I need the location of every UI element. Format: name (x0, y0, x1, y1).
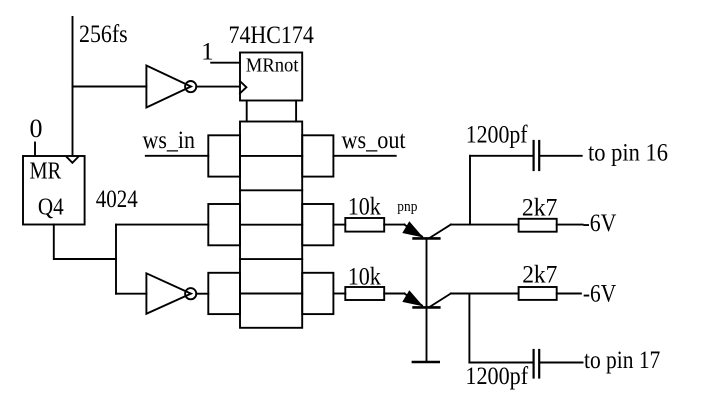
cell divider 2 (240, 189, 302, 191)
transistor Q2 pnp (402, 290, 451, 307)
wire node B down (468, 294, 470, 363)
wire to inverter 2 (116, 293, 146, 295)
resistor R4 2k7 lower (519, 287, 557, 300)
cell divider 4 (240, 258, 302, 260)
resistor R2 10k (345, 287, 384, 300)
svg-text:-6V: -6V (583, 210, 617, 237)
wire 256fs vertical (72, 17, 74, 156)
svg-text:10k: 10k (348, 194, 382, 221)
svg-text:74HC174: 74HC174 (229, 22, 315, 49)
svg-text:MR: MR (30, 159, 62, 185)
wire pin 1 to MRnot (211, 62, 240, 64)
svg-text:1: 1 (201, 39, 214, 66)
wire node to C1 (470, 155, 532, 157)
resistor R1 10k (345, 218, 384, 232)
wire node B to C2 (469, 362, 532, 364)
wire Q1 collector to node A (451, 224, 519, 226)
wire C2 to pin 17 (540, 362, 582, 364)
svg-text:pnp: pnp (397, 199, 417, 215)
cell divider 3 (240, 224, 302, 226)
capacitor C2 1200pf (534, 350, 540, 378)
inverter U2A (146, 66, 196, 108)
left tab row 3 (208, 273, 240, 314)
clock wedge 4024 (67, 157, 79, 163)
wire R4 to -6V (557, 293, 581, 295)
svg-text:1200pf: 1200pf (466, 122, 528, 149)
svg-text:0: 0 (30, 114, 43, 143)
ground (413, 361, 439, 364)
left tab row 2 (208, 204, 240, 245)
svg-text:ws_out: ws_out (342, 127, 406, 154)
inverter U2B (146, 273, 196, 314)
wire ws_out (333, 155, 395, 157)
wire to left tab row 2 (116, 224, 208, 226)
svg-text:Q4: Q4 (38, 195, 64, 221)
chip stack body 74HC174 (240, 122, 302, 328)
svg-text:10k: 10k (348, 264, 382, 291)
svg-text:to pin 17: to pin 17 (584, 347, 660, 374)
chip neck (247, 101, 296, 122)
svg-text:MRnot: MRnot (246, 55, 299, 77)
MRnot box U1 (240, 53, 302, 101)
wire right tab row 3 to R2 (333, 293, 345, 295)
wire right tab row 2 to R1 (333, 224, 345, 226)
capacitor C1 1200pf (534, 141, 540, 170)
svg-text:to pin 16: to pin 16 (588, 140, 668, 167)
right tab row 2 (302, 204, 333, 245)
svg-text:1200pf: 1200pf (465, 363, 528, 390)
svg-text:4024: 4024 (96, 186, 138, 213)
wire Q2 collector to node B (451, 293, 519, 295)
svg-text:2k7: 2k7 (522, 195, 558, 222)
resistor R3 2k7 upper (519, 219, 557, 232)
wire R1 to Q1 base (384, 224, 404, 226)
right tab row 1 (302, 135, 333, 176)
transistor Q1 pnp (402, 221, 451, 238)
cell divider 1 (240, 155, 302, 157)
wire Q2 base to ground (426, 307, 428, 362)
wire R3 to -6V (557, 224, 583, 226)
4024 counter box (23, 156, 85, 225)
svg-text:2k7: 2k7 (522, 262, 557, 289)
wire Q4 output down-right (54, 225, 116, 260)
right tab row 3 (302, 273, 333, 314)
svg-text:-6V: -6V (583, 281, 616, 308)
svg-text:ws_in: ws_in (143, 127, 196, 154)
left tab row 1 (208, 135, 240, 176)
stub 0 input (34, 143, 36, 157)
cell divider 5 (240, 293, 302, 295)
wire 256fs to inverter (73, 86, 147, 88)
wire ws_in (146, 155, 209, 157)
wire inverter 2 to left tab row 3 (196, 293, 208, 295)
wire C1 to pin 16 (540, 155, 581, 157)
wire branch vertical (115, 225, 117, 294)
wire Q1 to Q2 vertical (426, 238, 428, 307)
svg-text:256fs: 256fs (79, 21, 128, 48)
wire node A up (469, 156, 471, 225)
clock wedge MRnot (240, 81, 246, 93)
wire inverter to MRnot (196, 86, 239, 88)
wire R2 to Q2 base (384, 293, 404, 295)
